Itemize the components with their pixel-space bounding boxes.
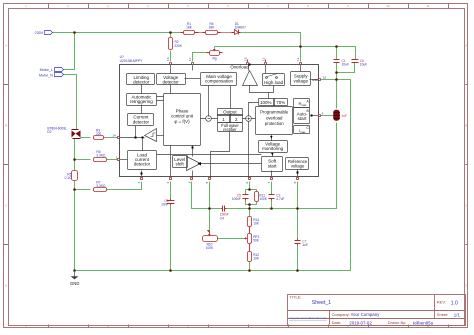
- svg-text:max: max: [300, 130, 306, 134]
- svg-text:voltage: voltage: [291, 164, 305, 169]
- svg-text:toliben85a: toliben85a: [413, 321, 434, 326]
- wire pot wiper up: [214, 47, 216, 50]
- svg-text:Drawn By:: Drawn By:: [388, 320, 406, 325]
- wire pin8 C7: [297, 182, 299, 271]
- svg-text:17: 17: [188, 57, 192, 61]
- svg-text:start: start: [298, 116, 308, 121]
- capacitor C6: [352, 59, 368, 67]
- svg-text:5: 5: [205, 181, 209, 183]
- trimmer R10: [203, 231, 218, 250]
- svg-text:Output: Output: [223, 109, 237, 114]
- svg-text:protection: protection: [265, 121, 284, 126]
- wire pin10 to right drop: [75, 80, 351, 271]
- wire gnd node left part: [192, 182, 222, 209]
- svg-text:retriggering: retriggering: [130, 99, 153, 104]
- svg-text:rectifier: rectifier: [223, 127, 237, 132]
- wire pin7 C2: [271, 182, 273, 209]
- svg-text:easyeda.com/editor/schematic: easyeda.com/editor/schematic: [289, 316, 327, 320]
- internal junction squares: [135, 64, 313, 233]
- svg-text:voltage: voltage: [293, 78, 308, 83]
- svg-text:10uF: 10uF: [360, 62, 367, 66]
- svg-text:shift: shift: [175, 162, 184, 167]
- wire pin9 to L1: [321, 115, 334, 117]
- svg-text:1: 1: [116, 155, 118, 159]
- svg-text:D: D: [5, 284, 7, 288]
- svg-text:15: 15: [244, 57, 248, 61]
- inductor L1 (1uF bead): [334, 110, 347, 121]
- block Programmable overload protection: [256, 107, 293, 135]
- svg-text:10K: 10K: [253, 256, 260, 260]
- wire R7 to pin4: [75, 182, 142, 190]
- svg-text:1uF: 1uF: [341, 114, 347, 118]
- ground: [70, 269, 79, 286]
- net label Motor_N: [39, 73, 63, 78]
- resistor R4: [203, 22, 221, 35]
- block High load: [263, 74, 285, 86]
- capacitor C5: [232, 194, 249, 202]
- wire Vs rail to C1 C6: [215, 47, 356, 60]
- resistor R7: [94, 180, 107, 191]
- svg-text:0.1Ω: 0.1Ω: [65, 176, 72, 180]
- svg-text:10nF: 10nF: [161, 203, 168, 207]
- wire R10 to RP1 wiper: [218, 238, 245, 240]
- block Phase control unit: [164, 94, 201, 146]
- block Main voltage compensation: [201, 73, 237, 86]
- svg-text:start: start: [268, 163, 278, 168]
- svg-text:detector: detector: [133, 119, 150, 124]
- block Limiting detector: [127, 74, 155, 85]
- svg-text:A: A: [466, 44, 468, 48]
- block Supply voltage: [291, 72, 311, 86]
- block Reference voltage: [286, 158, 309, 170]
- pin stub NC 12: [265, 60, 267, 63]
- block Rmax A: [294, 99, 310, 108]
- wire C5 R11 verticals: [246, 190, 257, 205]
- svg-text:Motor_L: Motor_L: [40, 68, 53, 72]
- svg-text:100K: 100K: [259, 197, 267, 201]
- svg-text:1.0: 1.0: [451, 300, 458, 306]
- resistor R3: [94, 129, 104, 140]
- svg-text:B: B: [466, 124, 468, 128]
- svg-text:C4: C4: [220, 216, 224, 220]
- svg-text:3.3KΩ: 3.3KΩ: [96, 153, 106, 157]
- IC block texts: [130, 64, 318, 168]
- IC U1 U2010B-MFPY body: [120, 65, 319, 177]
- block Soft start: [262, 157, 283, 172]
- wire R6 to pin1: [75, 159, 118, 161]
- svg-text:18K: 18K: [186, 26, 193, 30]
- svg-text:9: 9: [322, 112, 324, 116]
- block Automatic retriggering: [127, 94, 157, 106]
- wire pin13 R2: [170, 33, 172, 62]
- svg-text:12: 12: [261, 57, 265, 61]
- comparator hysteresis triangle: [145, 129, 157, 142]
- svg-text:1/1: 1/1: [454, 312, 461, 317]
- svg-text:100%: 100%: [260, 100, 272, 105]
- pin stub NC 15: [247, 60, 249, 63]
- capacitor C1: [334, 59, 349, 67]
- svg-text:3: 3: [188, 181, 192, 183]
- resistor R12: [248, 252, 260, 262]
- svg-text:230V: 230V: [35, 31, 44, 35]
- svg-text:2: 2: [166, 181, 170, 183]
- block Output: [218, 109, 243, 116]
- svg-text:Overload: Overload: [230, 64, 249, 69]
- svg-text:A: A: [5, 44, 7, 48]
- wire pin11 stub: [300, 47, 302, 62]
- wire pin5 drop to R10 wiper: [209, 182, 211, 231]
- svg-text:Date:: Date:: [332, 320, 342, 325]
- svg-text:Sheet:: Sheet:: [437, 312, 449, 317]
- wire Motor_N to triac: [64, 75, 77, 130]
- block Full wave rectifier: [218, 123, 243, 132]
- title block: [288, 295, 466, 326]
- svg-text:Motor_N: Motor_N: [39, 73, 53, 77]
- resistor R2: [169, 38, 183, 50]
- block Imax C: [294, 126, 310, 134]
- switch in High load: [266, 77, 268, 79]
- resistor R5 shunt: [65, 171, 78, 181]
- wire pin2 C3: [170, 182, 172, 271]
- level shift amplifier triangle: [187, 157, 201, 171]
- summing node plus: [246, 116, 252, 122]
- block Voltage monitoring: [259, 141, 288, 153]
- block 100% / 70%: [259, 99, 275, 106]
- svg-text:220K: 220K: [175, 44, 183, 48]
- svg-text:11: 11: [296, 58, 300, 61]
- svg-text:D2: D2: [47, 130, 51, 134]
- block Load current detector: [128, 151, 157, 170]
- svg-text:2019-07-02: 2019-07-02: [349, 321, 372, 326]
- svg-text:1N4007: 1N4007: [235, 26, 246, 30]
- block Voltage detector: [157, 74, 186, 85]
- svg-text:Programmable: Programmable: [260, 110, 289, 115]
- svg-text:detector: detector: [134, 162, 151, 167]
- summing node minus: [206, 116, 212, 122]
- resistor R11: [255, 192, 268, 202]
- svg-text:10: 10: [323, 75, 327, 79]
- svg-text:REV:: REV:: [437, 300, 446, 305]
- wire pin17 to pot Rg: [193, 53, 207, 62]
- svg-text:C: C: [465, 204, 467, 208]
- net label 230V: [35, 31, 53, 36]
- svg-text:Your Company: Your Company: [351, 312, 381, 317]
- svg-text:3.3KΩ: 3.3KΩ: [96, 184, 106, 188]
- svg-text:U2010B-MFPY: U2010B-MFPY: [120, 59, 144, 63]
- svg-text:Company:: Company:: [332, 312, 350, 317]
- internal wires: [120, 65, 319, 178]
- capacitor C3: [161, 199, 174, 207]
- svg-text:4.7uF: 4.7uF: [276, 197, 284, 201]
- wire R1 to R4 to D1: [199, 32, 232, 34]
- svg-text:control unit: control unit: [171, 114, 194, 119]
- svg-text:C: C: [5, 204, 7, 208]
- svg-text:13: 13: [166, 57, 170, 61]
- wire triac gate R3: [81, 137, 118, 139]
- svg-text:100nF: 100nF: [232, 197, 241, 201]
- wire L1 down to gnd node: [227, 123, 337, 209]
- svg-text:70%: 70%: [276, 100, 285, 105]
- svg-text:detector: detector: [162, 80, 179, 85]
- trimmer RP1: [227, 227, 260, 252]
- svg-text:18K: 18K: [209, 26, 216, 30]
- svg-text:100K: 100K: [206, 246, 214, 250]
- wire D1 to pin11 corner: [241, 33, 301, 47]
- svg-text:TITLE:: TITLE:: [290, 295, 302, 300]
- resistor R6: [94, 150, 107, 162]
- net label Motor_L: [40, 68, 64, 72]
- svg-text:50K: 50K: [253, 239, 260, 243]
- svg-text:6: 6: [245, 181, 249, 183]
- pin circles on IC edges: [117, 62, 320, 179]
- svg-text:High load: High load: [264, 80, 284, 85]
- svg-text:GND: GND: [70, 281, 79, 286]
- wire 230V rail: [53, 33, 356, 271]
- block Auto-start B: [294, 108, 310, 124]
- svg-text:14: 14: [112, 134, 116, 138]
- svg-text:7: 7: [267, 181, 271, 183]
- capacitor C7: [295, 239, 308, 248]
- resistor R14: [248, 217, 260, 227]
- svg-text:overload: overload: [266, 115, 283, 120]
- svg-text:1uF: 1uF: [302, 243, 308, 247]
- svg-text:10uF: 10uF: [342, 62, 349, 66]
- svg-text:Sheet_1: Sheet_1: [312, 300, 331, 306]
- svg-text:D: D: [465, 284, 467, 288]
- diode D1 1N4007: [232, 22, 247, 35]
- svg-text:10K: 10K: [253, 221, 260, 225]
- wire C1 C6 bottoms: [337, 63, 355, 109]
- block Current detector: [128, 114, 154, 126]
- svg-text:B: B: [5, 124, 7, 128]
- pin numbers: [112, 57, 326, 183]
- wire triac anode1 down: [74, 139, 76, 271]
- wire R14 chain: [249, 209, 251, 271]
- svg-text:compensation: compensation: [205, 79, 234, 84]
- svg-text:monitoring: monitoring: [262, 146, 284, 151]
- wire C1 drop: [336, 47, 338, 60]
- svg-text:220: 220: [96, 132, 102, 136]
- potentiometer Rg: [207, 49, 223, 60]
- capacitor C2: [269, 194, 285, 202]
- wire left main 230V drop to Motor_L: [64, 33, 75, 70]
- svg-text:GND: GND: [312, 78, 318, 82]
- svg-text:Rg: Rg: [212, 56, 216, 60]
- triac D2 BT804-600SL: [47, 126, 80, 138]
- block Level shift: [173, 156, 188, 168]
- svg-text:detector: detector: [133, 80, 150, 85]
- capacitor C4: [220, 206, 229, 221]
- svg-text:max: max: [301, 103, 307, 107]
- resistor R1: [181, 22, 199, 35]
- svg-text:4: 4: [137, 181, 141, 183]
- svg-text:φ = f(V): φ = f(V): [174, 119, 190, 124]
- wire pin6 to C5 R11: [246, 182, 257, 209]
- comparator overload triangle: [243, 71, 258, 86]
- svg-text:8: 8: [293, 181, 297, 183]
